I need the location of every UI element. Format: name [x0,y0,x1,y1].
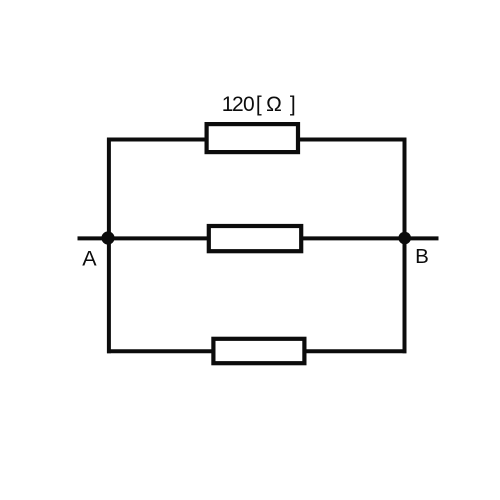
svg-text:B: B [415,245,429,268]
resistor R3 (bottom branch) [213,339,304,363]
svg-text:A: A [82,247,97,271]
svg-text:Ω: Ω [266,93,282,116]
wire: bottom branch horizontal [107,349,406,353]
svg-text:]: ] [290,93,296,116]
wire: middle branch horizontal from node A to node B [109,236,405,240]
wire: left terminal stub into node A [78,236,109,240]
wire: left vertical bus from top branch to bottom branch [107,138,111,354]
resistor R2 (middle branch) [209,226,301,251]
node B junction dot [398,232,411,245]
node A junction dot [101,231,114,244]
resistor R1 (top branch, 120 ohm) [207,124,298,152]
wire: top branch horizontal [107,138,406,142]
wire: right terminal stub out of node B [405,236,439,240]
svg-text:0: 0 [243,93,255,116]
svg-text:[: [ [256,93,262,116]
wire: right vertical bus from top branch to bottom branch [403,138,407,354]
value label 120[ohm] for resistor R1 [222,93,296,116]
